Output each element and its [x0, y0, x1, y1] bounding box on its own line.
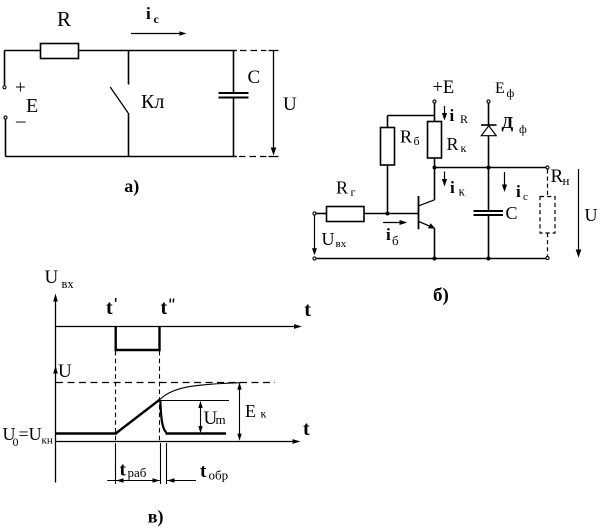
svg-text:Е: Е — [495, 80, 505, 97]
svg-text:C: C — [248, 67, 261, 88]
svg-text:c: c — [523, 191, 528, 203]
svg-text:н: н — [563, 173, 570, 188]
terminal + of E — [3, 86, 6, 89]
wire emitter vertical — [434, 229, 436, 259]
svg-text:U: U — [58, 361, 72, 382]
arrow U — [273, 51, 275, 152]
terminal Rn bottom — [546, 256, 549, 259]
svg-text:U: U — [585, 205, 598, 225]
wire bottom bus — [316, 258, 546, 260]
svg-text:ф: ф — [519, 122, 527, 136]
svg-text:C: C — [506, 203, 518, 223]
resistor Rn dashed lead bottom — [547, 233, 549, 256]
terminal - of E — [4, 116, 7, 119]
axis t lower — [56, 441, 297, 443]
svg-text:t: t — [304, 299, 311, 321]
node base junction — [386, 212, 390, 216]
svg-text:i: i — [450, 106, 455, 125]
wire Rk to node — [434, 158, 436, 168]
tick drop start — [160, 443, 162, 484]
tick drop end — [166, 443, 168, 484]
resistor Rn dashed lead top — [547, 169, 549, 196]
svg-text:U: U — [322, 229, 335, 249]
svg-text:R: R — [447, 134, 459, 154]
svg-text:+Е: +Е — [433, 78, 455, 98]
svg-text:m: m — [216, 412, 226, 427]
dim arrow t_obr — [167, 480, 196, 482]
svg-text:–: – — [15, 111, 26, 132]
svg-text:обр: обр — [209, 468, 229, 483]
resistor Rk — [428, 122, 442, 159]
svg-text:R: R — [336, 178, 348, 198]
terminal input top — [313, 212, 316, 215]
svg-text:R: R — [460, 112, 468, 126]
resistor Rb — [381, 128, 395, 166]
svg-text:t: t — [200, 461, 207, 482]
wire top-left vertical — [4, 51, 6, 86]
wire Rb up — [387, 116, 389, 128]
svg-text:б): б) — [433, 285, 449, 306]
switch Кл blade — [110, 87, 128, 113]
svg-text:раб: раб — [128, 465, 147, 480]
svg-text:E: E — [26, 95, 38, 117]
axis U arrowhead — [53, 366, 58, 374]
terminal Ef — [487, 100, 490, 103]
arrow i_R — [444, 106, 446, 117]
diode Df — [481, 124, 497, 126]
svg-text:к: к — [461, 141, 467, 155]
svg-text:к: к — [459, 184, 466, 199]
svg-text:ф: ф — [507, 86, 515, 100]
capacitor C wire upper — [488, 168, 490, 211]
svg-text:Д: Д — [502, 113, 514, 132]
resistor Rg — [327, 207, 365, 222]
arrow i_c — [131, 33, 181, 35]
arrow i_b — [383, 222, 403, 224]
wire bottom horizontal — [6, 156, 238, 158]
svg-text:+: + — [15, 78, 26, 99]
svg-text:t: t — [161, 297, 168, 319]
svg-text:г: г — [351, 185, 356, 199]
wire terminal to Rg — [316, 213, 326, 215]
wire bottom-left vertical — [5, 119, 7, 156]
svg-text:c: c — [154, 12, 160, 26]
curve baseline left thick — [56, 432, 117, 434]
terminal input bottom — [313, 257, 316, 260]
resistor Rn dashed body — [540, 197, 555, 234]
wire +E to Rk — [434, 103, 436, 121]
arrow Um — [200, 402, 202, 432]
axis vertical — [55, 296, 57, 483]
capacitor C lower wire — [233, 98, 235, 157]
input pulse — [116, 327, 160, 351]
svg-text:вх: вх — [62, 277, 75, 291]
transistor VT collector stroke — [419, 200, 435, 206]
curve drop thick — [160, 400, 166, 433]
dim line t_rab — [107, 480, 160, 482]
svg-text:i: i — [146, 4, 151, 23]
switch Кл upper wire — [128, 51, 130, 85]
wire collector bus — [435, 167, 547, 169]
wire Rb top horizontal — [388, 115, 435, 117]
svg-text:к: к — [261, 407, 267, 421]
svg-text:U: U — [283, 94, 297, 115]
svg-text:Кл: Кл — [141, 91, 164, 113]
node emitter bottom — [433, 257, 437, 261]
node Rk bottom — [433, 166, 437, 170]
wire base — [364, 213, 419, 215]
wire collector vertical — [434, 168, 436, 200]
wire Rb down to base node — [387, 165, 389, 214]
capacitor C plates — [219, 92, 249, 94]
svg-text:Е: Е — [245, 401, 256, 421]
svg-text:=U: =U — [19, 424, 42, 444]
wire input left vertical with arrow — [314, 215, 316, 251]
svg-text:t: t — [303, 418, 310, 440]
svg-text:t: t — [106, 297, 113, 319]
terminal Rn top — [546, 166, 549, 169]
node diode junction — [487, 166, 491, 170]
terminal +E — [433, 100, 436, 103]
axis t upper — [56, 326, 299, 328]
svg-text:i: i — [516, 182, 521, 201]
curve exponential thin — [160, 383, 241, 400]
capacitor C plates — [474, 210, 504, 212]
dashed level Ek — [56, 382, 275, 384]
transistor VT emitter stroke — [419, 222, 431, 227]
capacitor C wire lower — [488, 216, 490, 259]
svg-text:кн: кн — [42, 435, 53, 447]
arrow Ek — [239, 384, 241, 440]
node capacitor bottom — [487, 257, 491, 261]
tick t' — [115, 443, 117, 484]
dashed guide t'' — [159, 351, 161, 441]
svg-text:i: i — [386, 225, 391, 244]
arrow i_c2 — [504, 172, 506, 188]
dashed guide t' — [115, 351, 117, 441]
svg-text:а): а) — [124, 176, 139, 197]
dashed link bottom — [239, 156, 267, 158]
line Um reference — [160, 400, 229, 402]
arrow U output — [578, 169, 580, 254]
capacitor C upper wire — [233, 51, 235, 93]
switch Кл lower wire — [128, 113, 130, 157]
arrow i_k — [444, 172, 446, 183]
dashed link top — [240, 50, 267, 52]
svg-text:i: i — [450, 178, 455, 197]
transistor VT base bar — [418, 196, 420, 229]
curve baseline right thick — [166, 432, 227, 434]
wire Ef to node — [488, 103, 490, 167]
wire top horizontal right — [79, 50, 238, 52]
curve ramp thick — [116, 400, 160, 434]
svg-text:t: t — [120, 460, 127, 481]
svg-text:R: R — [400, 127, 412, 147]
svg-text:U: U — [45, 267, 59, 288]
svg-text:б: б — [414, 134, 420, 148]
svg-text:б: б — [392, 233, 399, 248]
resistor R — [41, 44, 79, 59]
svg-text:R: R — [57, 7, 71, 31]
svg-text:в): в) — [148, 506, 164, 527]
wire top horizontal left — [5, 50, 41, 52]
svg-text:вх: вх — [336, 238, 347, 250]
